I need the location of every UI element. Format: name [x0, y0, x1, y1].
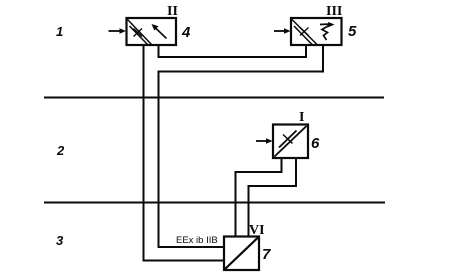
wire W5 from device 6 right terminal to converter 7 top-right input: [249, 158, 297, 237]
label I: [299, 110, 304, 125]
zone separator line upper: [44, 97, 384, 99]
label VI: [249, 223, 265, 238]
svg-text:4: 4: [181, 24, 191, 41]
label III: [326, 4, 342, 19]
svg-text:I: I: [299, 110, 304, 125]
wire W2 from device 4 right terminal to device 5 left terminal: [159, 46, 307, 58]
sensor box 6 (zone 2, label I): [273, 125, 308, 159]
value label 6: [311, 135, 320, 152]
zone label 3: [56, 233, 64, 248]
svg-text:III: III: [326, 4, 342, 19]
value label 4: [181, 24, 191, 41]
sensor 4 symbol: double diagonal with cross: [128, 20, 153, 46]
input arrow to sensor 5: [274, 28, 291, 34]
svg-text:5: 5: [348, 23, 357, 40]
sensor 4 internal arrow: [152, 24, 167, 39]
svg-text:2: 2: [56, 143, 65, 158]
zone label 2: [56, 143, 65, 158]
svg-text:EEx ib IIB: EEx ib IIB: [176, 235, 218, 246]
svg-text:3: 3: [56, 233, 64, 248]
sensor box 5 (zone 1, label III): [291, 18, 342, 45]
sensor 5 symbol: double diagonal with cross: [292, 20, 318, 46]
input arrow to sensor 4: [109, 28, 127, 34]
input arrow to sensor 6: [256, 138, 273, 144]
sensor 6 symbol: double diagonal with cross: [275, 126, 307, 157]
svg-text:VI: VI: [249, 223, 265, 238]
sensor box 4 (zone 1, label II): [127, 18, 177, 45]
value label 7: [262, 246, 271, 263]
svg-text:6: 6: [311, 135, 320, 152]
wire W3 from device 5 right terminal down to converter 7 left-upper input: [159, 46, 324, 248]
zone label 1: [56, 24, 63, 39]
label II: [167, 4, 178, 19]
isolating converter box 7 (label VI): [224, 237, 259, 271]
svg-text:1: 1: [56, 24, 63, 39]
zone separator line lower: [44, 202, 385, 204]
net label EEx ib IIB: [176, 235, 218, 246]
svg-text:II: II: [167, 4, 178, 19]
svg-text:7: 7: [262, 246, 271, 263]
wire W4 from device 6 left terminal to converter 7 top-left input: [236, 158, 282, 237]
value label 5: [348, 23, 357, 40]
wire W1 from device 4 left terminal down to converter 7 left-lower input: [144, 46, 225, 261]
sensor 5 internal squiggle arrow: [320, 22, 335, 40]
